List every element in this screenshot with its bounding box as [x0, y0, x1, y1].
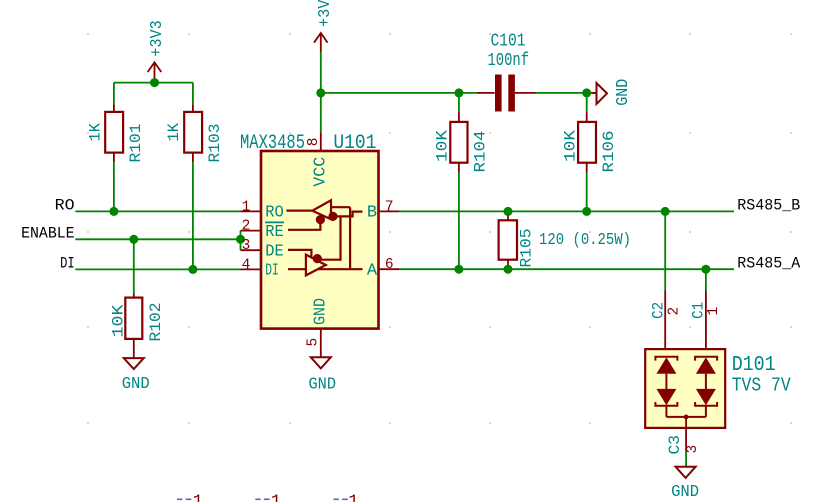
svg-text:GND: GND — [671, 483, 699, 502]
svg-text:R106: R106 — [600, 131, 618, 173]
svg-text:C3: C3 — [666, 435, 684, 455]
svg-text:1: 1 — [242, 199, 251, 215]
svg-text:RE: RE — [265, 223, 284, 242]
svg-text:U101: U101 — [333, 132, 376, 155]
svg-text:C101: C101 — [491, 30, 526, 51]
svg-text:5: 5 — [306, 338, 322, 347]
svg-text:R105: R105 — [518, 229, 536, 268]
svg-text:R104: R104 — [472, 131, 490, 173]
svg-text:6: 6 — [385, 257, 394, 273]
svg-text:R102: R102 — [147, 303, 165, 342]
svg-text:GND: GND — [122, 375, 150, 394]
svg-text:DI: DI — [60, 255, 75, 273]
svg-text:R103: R103 — [206, 124, 224, 163]
svg-text:MAX3485: MAX3485 — [240, 132, 305, 155]
svg-text:10K: 10K — [561, 130, 579, 162]
svg-text:GND: GND — [309, 376, 337, 395]
svg-text:+3V3: +3V3 — [148, 20, 167, 57]
svg-text:1: 1 — [706, 307, 722, 316]
svg-text:GND: GND — [614, 79, 633, 106]
svg-text:10K: 10K — [434, 130, 452, 162]
svg-text:8: 8 — [306, 138, 322, 147]
svg-text:D101: D101 — [732, 354, 776, 377]
svg-text:GND: GND — [311, 298, 330, 325]
svg-text:DE: DE — [265, 242, 284, 261]
svg-text:3: 3 — [242, 238, 251, 254]
svg-text:1: 1 — [348, 493, 358, 502]
svg-text:C1: C1 — [689, 302, 707, 319]
svg-text:1K: 1K — [87, 123, 105, 142]
svg-text:1: 1 — [271, 493, 281, 502]
svg-text:2: 2 — [667, 307, 683, 316]
svg-text:R101: R101 — [127, 124, 145, 163]
svg-text:1: 1 — [193, 493, 203, 502]
svg-text:TVS 7V: TVS 7V — [732, 375, 792, 397]
svg-text:RO: RO — [55, 197, 75, 215]
svg-text:7: 7 — [385, 199, 394, 215]
svg-text:3: 3 — [685, 445, 701, 454]
svg-text:C2: C2 — [650, 302, 668, 319]
svg-text:VCC: VCC — [311, 157, 330, 187]
svg-text:100nf: 100nf — [488, 50, 530, 71]
svg-text:RO: RO — [265, 204, 284, 223]
svg-text:120 (0.25W): 120 (0.25W) — [539, 230, 631, 249]
svg-text:B: B — [367, 204, 377, 223]
svg-text:10K: 10K — [110, 304, 128, 337]
svg-text:2: 2 — [242, 219, 251, 235]
svg-text:DI: DI — [265, 262, 279, 281]
svg-text:1K: 1K — [165, 123, 183, 142]
svg-text:+3V3: +3V3 — [316, 0, 335, 27]
svg-text:A: A — [367, 261, 378, 280]
svg-text:4: 4 — [242, 257, 251, 273]
svg-text:RS485_B: RS485_B — [737, 197, 800, 215]
svg-text:RS485_A: RS485_A — [737, 254, 801, 272]
svg-text:ENABLE: ENABLE — [21, 225, 75, 243]
